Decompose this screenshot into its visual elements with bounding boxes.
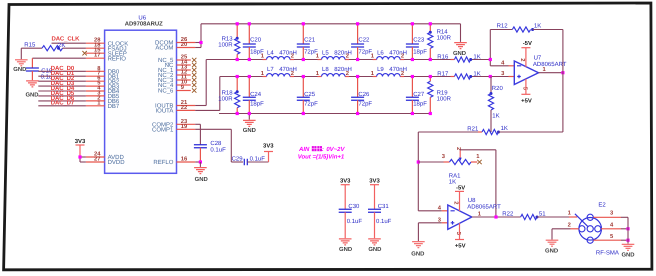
E2 pin 2 wire to ground	[552, 221, 579, 239]
capacitor C22 72pF row A	[351, 24, 372, 60]
U6 pin 28 CLOCK	[86, 37, 128, 48]
svg-text:DAC_D7: DAC_D7	[51, 100, 75, 107]
net label DAC_D3 and wire	[38, 80, 86, 87]
net label DAC_D2 and wire	[38, 75, 86, 82]
svg-text:3V3: 3V3	[263, 142, 274, 149]
svg-text:GND: GND	[545, 247, 558, 254]
svg-text:17: 17	[94, 53, 100, 59]
inductor L6 470nH row A	[371, 49, 407, 59]
top ground bus	[201, 23, 461, 25]
ground for C31	[368, 239, 381, 253]
svg-text:19: 19	[181, 123, 188, 130]
svg-text:2: 2	[346, 53, 349, 60]
power -5V for U7	[521, 40, 532, 67]
svg-text:AD8065ART: AD8065ART	[533, 61, 567, 68]
U6 pin 9 NC_6	[158, 84, 191, 95]
svg-text:2: 2	[568, 221, 571, 228]
U6 pin 13 NC_1	[158, 64, 191, 75]
ground for C19	[25, 81, 38, 99]
svg-text:20: 20	[181, 41, 187, 48]
power +5V for U8	[455, 223, 466, 249]
svg-text:DB7: DB7	[108, 103, 120, 110]
svg-text:DVDD: DVDD	[108, 159, 126, 166]
resistor R15 2K on FSADJ	[21, 42, 86, 51]
net label DAC_D7 and wire	[38, 100, 86, 107]
power 3V3 for C31	[369, 178, 380, 210]
resistor R19 100R	[428, 77, 452, 114]
junction dots bottom bus	[236, 112, 432, 115]
svg-text:C31: C31	[378, 203, 390, 210]
svg-text:16: 16	[181, 156, 188, 163]
U6 pin 15 SLEEP	[86, 48, 127, 58]
svg-text:820nH: 820nH	[334, 66, 352, 73]
wire REFLO joins C28	[195, 160, 202, 167]
svg-text:RF-SMA: RF-SMA	[596, 250, 619, 257]
svg-text:51: 51	[539, 211, 546, 218]
resistor R12 1K feedback	[490, 23, 563, 73]
no-connect X on pin 13	[192, 68, 196, 72]
wire row B to U7 pin 3	[489, 75, 515, 78]
svg-text:470nH: 470nH	[279, 49, 297, 56]
ground for bottom bus	[243, 114, 256, 134]
net label DAC_CLK and wire to pin 28	[52, 36, 86, 44]
ground for C28/REFLO	[194, 168, 208, 184]
svg-text:U8: U8	[468, 197, 476, 204]
svg-text:0.1uF: 0.1uF	[347, 218, 363, 225]
svg-text:R21: R21	[467, 125, 479, 132]
svg-text:R14: R14	[437, 29, 449, 36]
svg-text:AD9708ARUZ: AD9708ARUZ	[125, 21, 163, 28]
resistor R16 1K	[437, 53, 490, 62]
svg-text:1K: 1K	[534, 23, 541, 30]
svg-text:C25: C25	[304, 91, 316, 98]
svg-text:R20: R20	[492, 85, 504, 92]
U6 pin 22 IOUTA	[156, 104, 196, 115]
svg-text:1K: 1K	[501, 125, 508, 132]
U6 pin 20 ACOM	[155, 41, 195, 52]
wire to U8 pin 4	[418, 210, 442, 212]
svg-text:R16: R16	[437, 53, 449, 60]
bottom ground bus	[219, 113, 430, 115]
ground for U8 pin 3	[411, 242, 424, 258]
svg-text:470nH: 470nH	[279, 66, 297, 73]
U6 pin 2 DB6	[86, 94, 120, 105]
svg-text:100R: 100R	[218, 41, 233, 48]
svg-text:1K: 1K	[473, 70, 480, 77]
inductor L5 820nH row A	[316, 49, 352, 59]
svg-text:470nH: 470nH	[389, 66, 407, 73]
inductor L4 470nH row A	[261, 49, 297, 59]
svg-text:L7: L7	[267, 66, 274, 73]
svg-text:GND: GND	[195, 176, 208, 183]
potentiometer RA1 1K	[418, 153, 480, 186]
svg-text:2: 2	[346, 70, 349, 77]
svg-text:L8: L8	[322, 66, 329, 73]
svg-text:0.1uF: 0.1uF	[376, 218, 392, 225]
E2 pin 4 wire	[601, 222, 630, 230]
svg-text:72pF: 72pF	[304, 101, 318, 108]
svg-text:R19: R19	[437, 90, 449, 97]
U6 pin 19 COMP1	[152, 123, 195, 134]
svg-text:GND: GND	[411, 251, 424, 258]
U6 pin 3 DB5	[86, 89, 120, 100]
power 3V3 for C29	[263, 142, 274, 162]
no-connect X on pin 10	[192, 83, 196, 87]
svg-text:18pF: 18pF	[250, 48, 264, 55]
svg-text:2: 2	[452, 201, 459, 204]
ground for R15	[13, 48, 27, 73]
svg-text:GND: GND	[243, 127, 256, 134]
svg-text:22: 22	[181, 104, 187, 111]
U6 pin 12 NC_2	[158, 69, 191, 80]
svg-text:R22: R22	[502, 210, 514, 217]
resistor R17 1K	[437, 70, 508, 79]
net label DAC_D6 and wire	[38, 95, 86, 102]
no-connect X on pin 11	[192, 78, 196, 82]
E2 pin 5 wire	[593, 234, 629, 242]
U6 pin 21 IOUTB	[155, 99, 195, 110]
svg-text:2: 2	[519, 58, 526, 61]
svg-text:U6: U6	[138, 14, 146, 21]
svg-text:1K: 1K	[492, 113, 499, 120]
no-connect X on pin 12	[192, 73, 196, 77]
svg-text:REFLO: REFLO	[153, 159, 173, 166]
capacitor C25 72pF row B	[297, 77, 318, 114]
net label DAC_D0 and wire	[38, 65, 86, 72]
capacitor C30 0.1uF	[339, 203, 363, 238]
svg-text:C30: C30	[348, 203, 360, 210]
inductor L7 470nH row B	[261, 66, 297, 77]
resistor R13 100R	[218, 24, 240, 60]
capacitor C31 0.1uF	[368, 203, 392, 238]
resistor R20 1K to R21 node	[488, 77, 503, 133]
svg-text:C20: C20	[250, 36, 262, 43]
U6 pin 27 DVDD	[86, 156, 125, 167]
capacitor C23 18pF row A	[406, 24, 427, 60]
junction dots row A	[236, 58, 432, 61]
capacitor C19 0.1uF on REFIO	[26, 58, 53, 80]
wire 3V3 to AVDD and DVDD	[78, 155, 86, 162]
U6 pin 16 REFLO	[153, 156, 195, 167]
power -5V for U8	[455, 185, 465, 211]
svg-text:2: 2	[401, 70, 404, 77]
net label DAC_D4 and wire	[38, 85, 86, 92]
svg-text:470nH: 470nH	[389, 49, 407, 56]
inductor L8 820nH row B	[316, 66, 352, 77]
wire U7 output down to R21 row	[562, 73, 564, 132]
DAC U6 AD9708ARUZ body	[105, 14, 177, 173]
svg-text:2: 2	[291, 70, 294, 77]
net label DAC_D1 and wire	[38, 70, 86, 77]
svg-text:AD8065ART: AD8065ART	[467, 204, 501, 211]
filter row B wire segments	[220, 76, 451, 78]
ground for C30	[339, 239, 352, 253]
U7 output wire pin 1	[539, 67, 565, 74]
svg-text:R13: R13	[222, 35, 234, 42]
U8 output wire pin 1	[472, 211, 521, 218]
inductor L9 470nH row B	[371, 66, 407, 77]
annotation text AIN range	[298, 146, 346, 160]
svg-text:GND: GND	[13, 66, 26, 73]
U6 pin 14 NC	[165, 60, 191, 70]
svg-text:L6: L6	[377, 49, 384, 56]
svg-text:REFIO: REFIO	[108, 55, 127, 62]
svg-text:C21: C21	[304, 36, 316, 43]
capacitor C21 72pF row A	[297, 24, 318, 60]
svg-text:C24: C24	[250, 91, 262, 98]
svg-text:ACOM: ACOM	[155, 45, 173, 52]
connector E2 RF-SMA body	[575, 202, 619, 257]
svg-text:27: 27	[94, 156, 100, 163]
wire RA1 wiper to U8 output node	[460, 150, 496, 217]
svg-text:100R: 100R	[218, 96, 233, 103]
U6 pin 8 DB0	[86, 65, 120, 76]
U6 pin 1 DB7	[86, 100, 120, 110]
svg-text:RA1: RA1	[449, 172, 461, 179]
svg-text:+5V: +5V	[455, 243, 466, 250]
svg-text:GND: GND	[25, 92, 38, 99]
wire DCOM/ACOM to ground bus	[195, 24, 202, 48]
U6 pin 4 DB4	[86, 86, 120, 96]
svg-text:18pF: 18pF	[413, 101, 427, 108]
svg-text:0.1uF: 0.1uF	[210, 146, 226, 153]
capacitor C26 72pF row B	[351, 77, 372, 114]
U6 pin 10 NC_4	[158, 79, 191, 90]
svg-text:C29: C29	[232, 156, 244, 163]
E2 pin 3 wire	[593, 210, 628, 218]
op-amp U7 AD8065ART	[501, 55, 567, 91]
U6 pin 17 REFIO	[86, 53, 126, 63]
svg-text:R12: R12	[497, 23, 509, 30]
U6 pin 18 FSADJ	[86, 42, 127, 53]
svg-text:COMP1: COMP1	[152, 127, 174, 134]
power +5V for U7	[521, 79, 532, 105]
svg-text:GND: GND	[368, 246, 381, 253]
wire IOUTA to filter row B	[195, 77, 220, 111]
svg-text:L5: L5	[322, 49, 329, 56]
no-connect X on RA1 pin 1	[477, 160, 481, 164]
junction dots row B	[236, 75, 432, 78]
svg-text:E2: E2	[598, 202, 606, 209]
U6 pin 5 DB3	[86, 81, 120, 91]
svg-text:U7: U7	[534, 55, 542, 62]
svg-text:3V3: 3V3	[340, 178, 351, 185]
svg-text:72pF: 72pF	[304, 48, 318, 55]
svg-text:1K: 1K	[473, 53, 480, 60]
svg-text:C23: C23	[413, 36, 425, 43]
svg-text:820nH: 820nH	[334, 49, 352, 56]
wire R16/R12 node to U7 pin 4	[489, 30, 515, 66]
svg-text:C28: C28	[210, 140, 222, 147]
resistor R21 1K	[418, 125, 563, 135]
no-connect X on pin 9	[192, 88, 196, 92]
svg-text:R15: R15	[24, 42, 36, 49]
op-amp U8 AD8065ART	[438, 197, 501, 236]
U6 pin 6 DB2	[86, 75, 120, 86]
svg-text:L4: L4	[267, 49, 274, 56]
capacitor C27 18pF row B	[406, 77, 427, 114]
svg-text:3V3: 3V3	[75, 138, 86, 145]
svg-text:-5V: -5V	[456, 185, 465, 192]
U6 pin 24 AVDD	[86, 151, 125, 162]
capacitor C28 0.1uF on COMP2	[194, 124, 226, 162]
U6 pin 11 NC_3	[158, 75, 191, 85]
ground for E2 pin 2	[545, 240, 558, 254]
U6 pin 25 NC_5	[158, 54, 191, 65]
svg-text:C26: C26	[358, 91, 370, 98]
svg-text:R17: R17	[437, 70, 449, 77]
capacitor C29 0.1uF on COMP1	[195, 129, 268, 165]
filter row A wire segments	[206, 59, 451, 61]
wire U8 pin 3 to ground	[418, 223, 447, 241]
svg-text:72pF: 72pF	[358, 101, 372, 108]
wire REFIO to C19	[32, 57, 86, 59]
wire IOUTB to filter row A	[195, 60, 206, 106]
svg-text:C27: C27	[413, 91, 425, 98]
svg-text:100R: 100R	[437, 35, 452, 42]
svg-text:GND: GND	[621, 252, 634, 259]
svg-text:2: 2	[401, 53, 404, 60]
svg-text:GND: GND	[339, 246, 352, 253]
net label DAC_D5 and wire	[38, 90, 86, 97]
svg-text:2: 2	[291, 53, 294, 60]
U6 pin 7 DB1	[86, 71, 120, 81]
capacitor C24 18pF row B	[243, 77, 264, 114]
svg-text:0.1uF: 0.1uF	[250, 156, 266, 163]
ground for top bus	[453, 24, 467, 57]
U6 pin 23 COMP2	[152, 118, 195, 129]
svg-text:L9: L9	[377, 66, 384, 73]
power 3V3 for AVDD/DVDD	[75, 138, 86, 157]
svg-text:100R: 100R	[437, 96, 452, 103]
U6 pin 26 DCOM	[155, 36, 195, 47]
svg-text:DAC_CLK: DAC_CLK	[52, 36, 81, 43]
svg-text:C22: C22	[358, 36, 370, 43]
no-connect X on pin 25	[192, 58, 196, 62]
svg-text:18pF: 18pF	[413, 48, 427, 55]
resistor R14 100R	[428, 24, 452, 60]
svg-text:IOUTA: IOUTA	[156, 108, 174, 115]
resistor R22 51	[502, 210, 577, 219]
E2 right ground rail	[621, 217, 634, 258]
svg-text:NC_6: NC_6	[158, 88, 174, 95]
svg-text:-5V: -5V	[523, 40, 532, 47]
svg-text:3V3: 3V3	[369, 178, 380, 185]
svg-text:18pF: 18pF	[250, 101, 264, 108]
power 3V3 for C30	[340, 178, 351, 210]
no-connect X on pin 14	[192, 63, 196, 67]
svg-text:GND: GND	[453, 50, 466, 57]
svg-text:72pF: 72pF	[358, 48, 372, 55]
capacitor C20 18pF row A	[243, 24, 264, 60]
svg-text:+5V: +5V	[521, 98, 532, 105]
no-connect X on SLEEP pin 15	[82, 51, 86, 55]
svg-text:R18: R18	[222, 90, 234, 97]
RA1 wiper pin 2	[455, 147, 462, 161]
svg-text:Vout =(1/5)Vin+1: Vout =(1/5)Vin+1	[298, 153, 345, 160]
resistor R18 100R	[218, 77, 240, 114]
wire R21 row down to RA1 pin3 and U8 pin4	[417, 132, 420, 211]
junction dots top bus	[236, 22, 432, 25]
